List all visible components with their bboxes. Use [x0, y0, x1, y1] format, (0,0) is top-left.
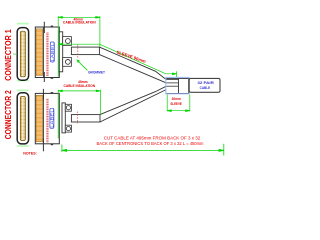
connector J1 mating face line — [42, 27, 44, 78]
dimension 40mm cable insulation (top) — [58, 16, 100, 77]
junction boot divider — [178, 79, 180, 94]
wire bottom diagonal lower — [100, 90, 166, 123]
hidden line insulation end top — [77, 45, 79, 58]
wire top diagonal upper — [99, 47, 166, 80]
grommet clamp bottom square connector 2 — [65, 125, 71, 132]
svg-text:CUT CABLE AT 495mm FROM BACK O: CUT CABLE AT 495mm FROM BACK OF 3 x 32 — [104, 136, 201, 141]
label plate L1 — [50, 42, 54, 62]
connector J1 latch bump top — [51, 26, 53, 28]
grommet screw bottom connector 2 — [66, 127, 70, 131]
svg-text:CONNECTOR 1: CONNECTOR 1 — [4, 29, 13, 81]
wire bottom diagonal upper — [100, 86, 166, 114]
connector J2 mating face line — [42, 93, 44, 143]
connector J2 side contacts (orange hatched) — [36, 95, 42, 142]
dimension 40mm cable insulation (bottom) — [58, 90, 100, 139]
dimension overall length 450mm — [62, 144, 224, 156]
connector J1 side contacts (orange hatched) — [36, 29, 42, 76]
backshell plate connector 2 — [62, 103, 65, 133]
junction boot — [166, 79, 188, 94]
connector J1 side view body — [35, 27, 59, 78]
junction sleeve blue outline — [166, 77, 189, 93]
svg-text:NOTES:: NOTES: — [23, 152, 37, 156]
svg-text:SLEEVE: SLEEVE — [170, 102, 182, 106]
cable insulation top run — [71, 47, 99, 55]
wire top diagonal lower — [99, 55, 166, 83]
wire ends inside boot — [166, 80, 178, 87]
connector J2 centerline tick top — [42, 89, 44, 100]
svg-text:BACK OF CENTRONICS TO BACK OF: BACK OF CENTRONICS TO BACK OF 3 x 32 L =… — [97, 141, 204, 146]
connector J1 wire band (red hatched) — [46, 32, 48, 76]
connector J1 contact slot — [20, 31, 25, 77]
connector J2 front view shell — [17, 93, 28, 144]
grommet clamp top square connector 1 — [63, 37, 72, 46]
label plate L2 — [50, 108, 54, 128]
connector J2 latch bump top — [51, 92, 53, 94]
node pin-row marker bottom (connector 1 front view) — [17, 80, 29, 82]
connector J1 centerline tick bottom — [43, 72, 45, 82]
hidden line insulation end bottom — [77, 112, 79, 124]
connector J2 side view body — [35, 93, 59, 143]
backshell plate connector 1 — [59, 32, 62, 72]
grommet screw bottom connector 1 — [66, 60, 71, 65]
svg-text:LABEL: LABEL — [50, 42, 55, 61]
connector J1 latch bump bottom — [51, 77, 53, 79]
node pin-row marker top (connector 1 front view) — [17, 23, 29, 25]
svg-text:LABEL: LABEL — [50, 109, 55, 128]
svg-text:CABLE: CABLE — [200, 86, 211, 90]
cable insulation bottom run — [71, 115, 100, 122]
dimension 30mm sleeve — [167, 95, 190, 112]
node pin-row marker bottom (connector 2 front view) — [17, 145, 29, 147]
connector J2 slot centerline — [22, 97, 24, 140]
connector J1 slot centerline — [22, 32, 24, 76]
dimension sleeve 90mm path (top) — [58, 43, 176, 77]
connector J1 front view shell — [17, 28, 28, 81]
connector J1 centerline tick top — [43, 22, 45, 33]
svg-text:CONNECTOR 2: CONNECTOR 2 — [4, 90, 13, 140]
connector J2 contact slot — [20, 96, 25, 140]
node pin-row marker top (connector 2 front view) — [17, 90, 29, 92]
svg-text:30mm: 30mm — [172, 97, 181, 101]
connector J2 wire band (red hatched) — [46, 98, 48, 142]
32 pair cable body — [189, 78, 220, 92]
svg-text:32 PAIR: 32 PAIR — [197, 81, 214, 85]
svg-text:GROMMET: GROMMET — [88, 71, 105, 75]
connector J2 latch bump bottom — [51, 144, 53, 146]
svg-text:CABLE INSULATION: CABLE INSULATION — [64, 84, 96, 88]
grommet clamp bottom square connector 1 — [63, 58, 72, 67]
grommet clamp top square connector 2 — [65, 104, 71, 111]
node centerline tick left of J1 — [13, 53, 17, 55]
grommet screw top connector 2 — [66, 106, 70, 110]
connector J2 centerline tick bottom — [42, 139, 44, 152]
leader arrow grommet — [78, 61, 88, 71]
svg-text:CABLE INSULATION: CABLE INSULATION — [63, 20, 96, 24]
grommet screw top connector 1 — [66, 39, 71, 44]
